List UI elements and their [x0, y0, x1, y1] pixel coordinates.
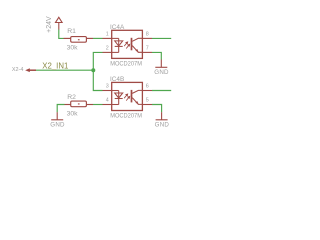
- wire net X2_IN1 horizontal: [36, 69, 93, 71]
- svg-text:30k: 30k: [67, 44, 79, 51]
- IC4A body box: [112, 30, 143, 58]
- pin 3 stub (anode): [103, 90, 112, 92]
- svg-text:6: 6: [146, 84, 149, 90]
- wire junction down to IC4B pin 3: [93, 70, 102, 90]
- wire +24V supply to R1: [59, 30, 64, 39]
- svg-text:IC4A: IC4A: [110, 24, 125, 31]
- LED diode of IC4A: [112, 38, 123, 52]
- pin 7 stub (emitter): [142, 51, 152, 53]
- svg-text:R1: R1: [67, 28, 76, 35]
- svg-text:7: 7: [146, 45, 149, 51]
- svg-text:4: 4: [106, 98, 109, 104]
- svg-text:X2_IN1: X2_IN1: [42, 62, 68, 71]
- IC4B body box: [112, 82, 143, 110]
- svg-text:1: 1: [106, 31, 109, 37]
- svg-text:+24V: +24V: [46, 16, 53, 33]
- ground GND (pin 7): [155, 60, 167, 68]
- LED diode of IC4B: [112, 91, 123, 105]
- svg-text:GND: GND: [50, 122, 65, 129]
- resistor R1: [64, 37, 94, 43]
- light arrows of IC4B: [124, 94, 130, 101]
- phototransistor of IC4A: [131, 38, 133, 51]
- supply symbol +24V (arrow): [56, 17, 63, 29]
- connector pin X2-4 arrow: [25, 68, 30, 72]
- wire junction up to IC4A pin 2: [93, 52, 102, 70]
- svg-text:X2-4: X2-4: [12, 67, 24, 73]
- pin 8 stub (collector): [142, 37, 152, 39]
- optocoupler IC4B gate B: [103, 76, 153, 119]
- pin 4 stub (cathode): [103, 104, 112, 106]
- wire output from IC4A pin 8: [152, 37, 171, 39]
- pin 6 stub (collector): [142, 90, 152, 92]
- svg-text:GND: GND: [155, 122, 170, 129]
- phototransistor of IC4B: [131, 90, 133, 103]
- wire IC4A pin 7 to ground: [152, 52, 161, 59]
- wire output from IC4B pin 6: [152, 90, 171, 92]
- svg-text:8: 8: [146, 31, 149, 37]
- junction on net X2_IN1: [91, 68, 95, 72]
- svg-text:30k: 30k: [67, 110, 79, 117]
- svg-text:IC4B: IC4B: [110, 76, 124, 83]
- svg-text:3: 3: [106, 84, 109, 90]
- svg-text:MOCD207M: MOCD207M: [110, 112, 142, 119]
- svg-text:GND: GND: [154, 69, 169, 76]
- ground GND (pin 5): [156, 112, 168, 120]
- pin 2 stub (cathode): [103, 51, 112, 53]
- wire ground to R2: [57, 105, 64, 113]
- pin 5 stub (emitter): [142, 104, 152, 106]
- svg-text:5: 5: [146, 98, 149, 104]
- pin 1 stub (anode): [103, 37, 112, 39]
- op-to-coupler IC4A gate A: [103, 24, 153, 67]
- svg-text:MOCD207M: MOCD207M: [110, 60, 142, 67]
- wire IC4B pin 5 to ground: [152, 105, 162, 113]
- resistor R2: [65, 101, 94, 107]
- wire R2 to IC4B pin 4: [93, 104, 103, 106]
- wire R1 to IC4A pin 1: [93, 37, 103, 39]
- ground GND (R2): [51, 112, 63, 120]
- light arrows of IC4A: [124, 42, 130, 49]
- svg-text:2: 2: [106, 45, 109, 51]
- svg-text:R2: R2: [67, 94, 76, 101]
